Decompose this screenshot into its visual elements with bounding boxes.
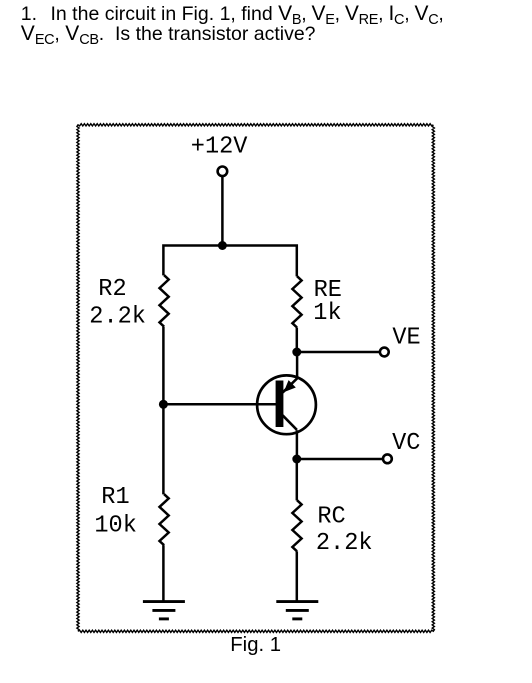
- node: VC junction (collector node): [292, 455, 301, 464]
- wire: RE bottom to VE node: [296, 328, 299, 353]
- wire: +12V terminal to top bus: [221, 177, 224, 246]
- wire: transistor collector down to VC node: [296, 430, 299, 459]
- wire: top bus from R2 top corner to RE top corner: [163, 246, 296, 277]
- transistor Q1 (PNP): [257, 375, 316, 434]
- wire: VE node down to transistor emitter: [296, 352, 299, 378]
- value label 2.2k (R2): [89, 304, 146, 331]
- wire: RC bottom to right ground: [296, 551, 299, 601]
- svg-text:2.2k: 2.2k: [89, 304, 146, 331]
- problem statement text: [21, 4, 444, 45]
- caption Fig. 1: [230, 634, 281, 657]
- svg-text:R2: R2: [98, 276, 126, 303]
- svg-text:R1: R1: [101, 484, 129, 511]
- svg-text:10k: 10k: [94, 513, 136, 540]
- resistor RC: [292, 500, 301, 551]
- resistor RE: [292, 276, 301, 327]
- wire: VC node down to RC top: [296, 459, 299, 500]
- terminal VC: [383, 430, 420, 463]
- svg-text:VC: VC: [392, 430, 420, 457]
- node: base junction on left rail: [159, 400, 168, 409]
- node: supply junction on top bus: [218, 241, 227, 250]
- resistor R1: [160, 494, 169, 545]
- wire: VE node to VE terminal: [297, 351, 380, 354]
- value label 10k (R1): [94, 513, 136, 540]
- label R2: [98, 276, 126, 303]
- label R1: [101, 484, 129, 511]
- wire: VC node to VC terminal: [297, 458, 383, 461]
- svg-text:VE: VE: [392, 325, 420, 352]
- node: VE junction (emitter node): [292, 348, 301, 357]
- power terminal +12V: [191, 134, 248, 177]
- ground (left, below R1): [143, 602, 185, 619]
- label RE: [314, 277, 342, 304]
- wire: base wire from left rail to transistor base bar: [163, 403, 276, 406]
- svg-text:RC: RC: [317, 504, 345, 531]
- value label 1k (RE): [313, 300, 341, 327]
- value label 2.2k (RC): [316, 530, 373, 557]
- svg-text:1k: 1k: [313, 300, 341, 327]
- wire: R1 bottom to left ground: [162, 545, 165, 601]
- svg-text:+12V: +12V: [191, 134, 248, 161]
- ground (right, below RC): [276, 602, 318, 619]
- terminal VE: [380, 325, 421, 357]
- wire: R2 bottom to R1 top (left rail): [162, 327, 165, 495]
- svg-text:2.2k: 2.2k: [316, 530, 373, 557]
- label RC: [317, 504, 345, 531]
- resistor R2: [160, 275, 169, 327]
